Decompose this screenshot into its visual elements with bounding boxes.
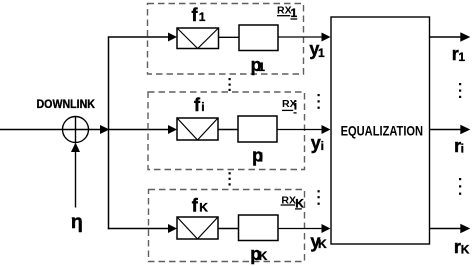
svg-text:K: K [461,242,470,256]
svg-text:1: 1 [199,10,206,24]
label pi [252,146,263,166]
svg-text:i: i [294,99,297,113]
arrowhead into equalizer row2 [322,125,331,134]
block pK [239,215,279,241]
wire: pK to equalizer [278,228,323,230]
label RXK (underlined) [281,195,305,211]
wire: equalizer output rK [430,224,471,234]
wire: pi to equalizer [277,129,323,131]
dashed box RX1 [148,4,304,75]
wire: branch to RXi [109,129,170,131]
svg-text:1: 1 [258,60,265,74]
svg-text:f: f [194,95,201,115]
svg-text:1: 1 [458,50,465,64]
arrowhead into equalizer row1 [322,33,331,42]
label pK [250,244,267,264]
svg-text:i: i [461,142,464,156]
label ri [454,136,464,156]
matched filter f1 (rect with V) [177,28,219,49]
svg-text:i: i [201,100,204,114]
arrowhead into f1 [168,33,177,42]
dots between RX1 and RXi boxes [229,78,231,91]
matched filter fi (rect with V) [177,118,218,140]
wire: equalizer output ri [430,125,471,135]
wire: branch to RXK [108,228,170,230]
svg-text:i: i [321,139,324,153]
matched filter fK (rect with V) [177,217,218,239]
arrowhead into fi [168,125,177,134]
block p1 [239,25,278,51]
label f1 [192,5,206,25]
svg-text:RX: RX [277,5,292,17]
svg-text:K: K [318,237,327,251]
wire: fi to pi [218,129,238,131]
wire: noise input eta (vertical, arrow up into adder) [71,143,80,208]
dots left of equalizer (between yi and yK) [318,190,320,205]
wire: branch to RX1 [108,36,170,38]
svg-text:K: K [259,249,268,263]
label yi [311,133,324,153]
svg-text:f: f [192,195,199,215]
svg-text:EQUALIZATION: EQUALIZATION [341,123,424,139]
svg-text:DOWNLINK: DOWNLINK [37,97,96,111]
label r1 [452,44,466,64]
label fi [194,95,205,115]
dots left of equalizer (between y1 and yi) [318,94,320,109]
svg-text:η: η [71,211,83,233]
arrowhead into equalizer row3 [322,224,331,233]
dots between RXi and RXK boxes [229,172,231,185]
label rK [454,237,470,257]
summing junction adder (circle with plus) [63,117,89,143]
wire: vertical branch line [108,37,110,229]
equalizer block [331,17,430,244]
wire: fK to pK [218,228,239,230]
dots right (between ri and rK) [459,178,461,195]
svg-text:f: f [192,5,199,25]
label fK [192,195,209,215]
wire: equalizer output r1 [430,32,471,42]
wire: main input line into adder [0,129,101,131]
dashed box RXi [148,92,305,170]
svg-text:K: K [199,200,208,214]
dashed box RXK [149,190,305,262]
svg-text:y: y [311,133,321,153]
dots right (between r1 and ri) [459,83,461,98]
label y1 [309,39,325,60]
wire: f1 to p1 [219,36,240,38]
label RXi (underlined) [282,98,297,113]
svg-text:1: 1 [318,46,325,60]
label RX1 (underlined) [277,5,298,20]
wire: p1 to equalizer [278,36,323,38]
svg-text:1: 1 [291,6,298,20]
arrowhead at branch junction [100,125,110,134]
label p1 [251,55,266,75]
arrowhead into fK [168,224,177,233]
svg-text:i: i [260,151,263,165]
block pi [238,116,277,142]
label yK [310,232,327,252]
